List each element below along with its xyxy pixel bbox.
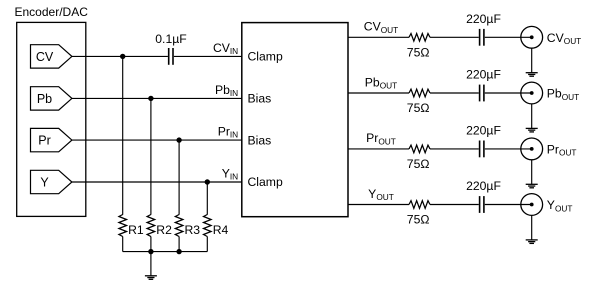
resistor R2 (147, 215, 155, 237)
svg-text:75Ω: 75Ω (407, 157, 430, 171)
connector jack CVOUT (521, 26, 543, 48)
resistor 75 ohm (Y channel) (409, 201, 430, 209)
svg-text:Y: Y (40, 175, 49, 189)
connector center pin (530, 147, 534, 151)
wire CV line down to R1 (122, 56, 124, 214)
wire R4 to bottom bus (206, 237, 208, 252)
connector center pin (530, 203, 534, 207)
svg-text:220µF: 220µF (466, 179, 501, 193)
connector center pin (530, 35, 534, 39)
wire resistor to 220uF capacitor (430, 148, 479, 150)
node junction bus/R2 (148, 249, 153, 254)
wire PrOUT pin to 75 ohm resistor (348, 148, 409, 150)
signal tag Y (31, 170, 72, 193)
resistor 75 ohm (CV channel) (409, 34, 430, 42)
wire R2 to bottom bus (150, 237, 152, 252)
svg-text:Pr: Pr (38, 134, 51, 148)
svg-text:Clamp: Clamp (248, 175, 283, 189)
wire 220uF capacitor to connector center pin (485, 204, 532, 206)
svg-text:R2: R2 (156, 223, 172, 237)
wire Pr line down to R3 (178, 140, 180, 215)
wire Y tag to YIN pin (72, 181, 242, 183)
svg-text:Bias: Bias (248, 133, 272, 147)
capacitor 220uF (Pb channel) (480, 85, 484, 102)
resistor R3 (175, 215, 183, 237)
svg-text:75Ω: 75Ω (407, 101, 430, 115)
IC U1 video amplifier box (242, 23, 348, 217)
wire R1 to bottom bus (122, 237, 124, 252)
svg-text:Clamp: Clamp (248, 50, 283, 64)
signal tag Pb (31, 87, 72, 110)
wire CVOUT pin to 75 ohm resistor (348, 36, 409, 38)
resistor R4 (204, 215, 212, 237)
capacitor 220uF (Pr channel) (480, 141, 484, 158)
svg-text:220µF: 220µF (466, 124, 501, 138)
node junction on Y line for R4 (205, 179, 210, 184)
svg-text:220µF: 220µF (466, 68, 501, 82)
capacitor C1 0.1uF (169, 48, 173, 65)
wire bottom ground bus (123, 251, 208, 253)
node junction on Pb line for R2 (148, 96, 153, 101)
wire resistor to 220uF capacitor (430, 92, 479, 94)
ground CVOUT (526, 73, 538, 77)
svg-text:R4: R4 (213, 223, 229, 237)
wire bus down to ground (150, 252, 152, 276)
ground bus (145, 276, 157, 280)
signal tag CV (31, 45, 72, 68)
wire connector shield to ground (531, 215, 533, 240)
wire 220uF capacitor to connector center pin (485, 36, 532, 38)
connector jack PrOUT (521, 138, 543, 160)
svg-text:75Ω: 75Ω (407, 213, 430, 227)
wire R3 to bottom bus (178, 237, 180, 252)
svg-text:75Ω: 75Ω (407, 45, 430, 59)
resistor R1 (119, 215, 127, 237)
capacitor 220uF (Y channel) (480, 196, 484, 213)
svg-text:Bias: Bias (248, 92, 272, 106)
signal tag Pr (31, 128, 72, 151)
node junction on Pr line for R3 (176, 137, 181, 142)
svg-text:Pb: Pb (37, 92, 52, 106)
wire 0.1uF capacitor to CVIN pin (174, 55, 242, 57)
node junction bus/R3 (176, 249, 181, 254)
wire Pb tag to PbIN pin (72, 97, 242, 99)
ground PrOUT (526, 184, 538, 188)
wire 220uF capacitor to connector center pin (485, 148, 532, 150)
wire PbOUT pin to 75 ohm resistor (348, 92, 409, 94)
svg-text:220µF: 220µF (466, 12, 501, 26)
svg-text:R3: R3 (185, 223, 201, 237)
capacitor 220uF (CV channel) (480, 29, 484, 46)
connector center pin (530, 91, 534, 95)
resistor 75 ohm (Pb channel) (409, 89, 430, 97)
wire connector shield to ground (531, 48, 533, 72)
connector jack YOUT (521, 194, 543, 216)
wire resistor to 220uF capacitor (430, 204, 479, 206)
wire 220uF capacitor to connector center pin (485, 92, 532, 94)
wire CV tag to 0.1uF capacitor (72, 55, 168, 57)
node junction on CV line for R1 (120, 54, 125, 59)
encoder/DAC box (17, 22, 86, 216)
svg-text:CV: CV (36, 50, 54, 64)
wire Pb line down to R2 (150, 98, 152, 214)
connector jack PbOUT (521, 82, 543, 104)
svg-text:Encoder/DAC: Encoder/DAC (15, 5, 89, 19)
wire connector shield to ground (531, 160, 533, 185)
ground PbOUT (526, 128, 538, 132)
resistor 75 ohm (Pr channel) (409, 145, 430, 153)
wire Y line down to R4 (206, 182, 208, 215)
svg-text:R1: R1 (128, 223, 144, 237)
ground YOUT (526, 240, 538, 244)
svg-text:0.1µF: 0.1µF (155, 32, 186, 46)
wire resistor to 220uF capacitor (430, 36, 479, 38)
wire Pr tag to PrIN pin (72, 139, 242, 141)
wire connector shield to ground (531, 104, 533, 128)
wire YOUT pin to 75 ohm resistor (348, 204, 409, 206)
